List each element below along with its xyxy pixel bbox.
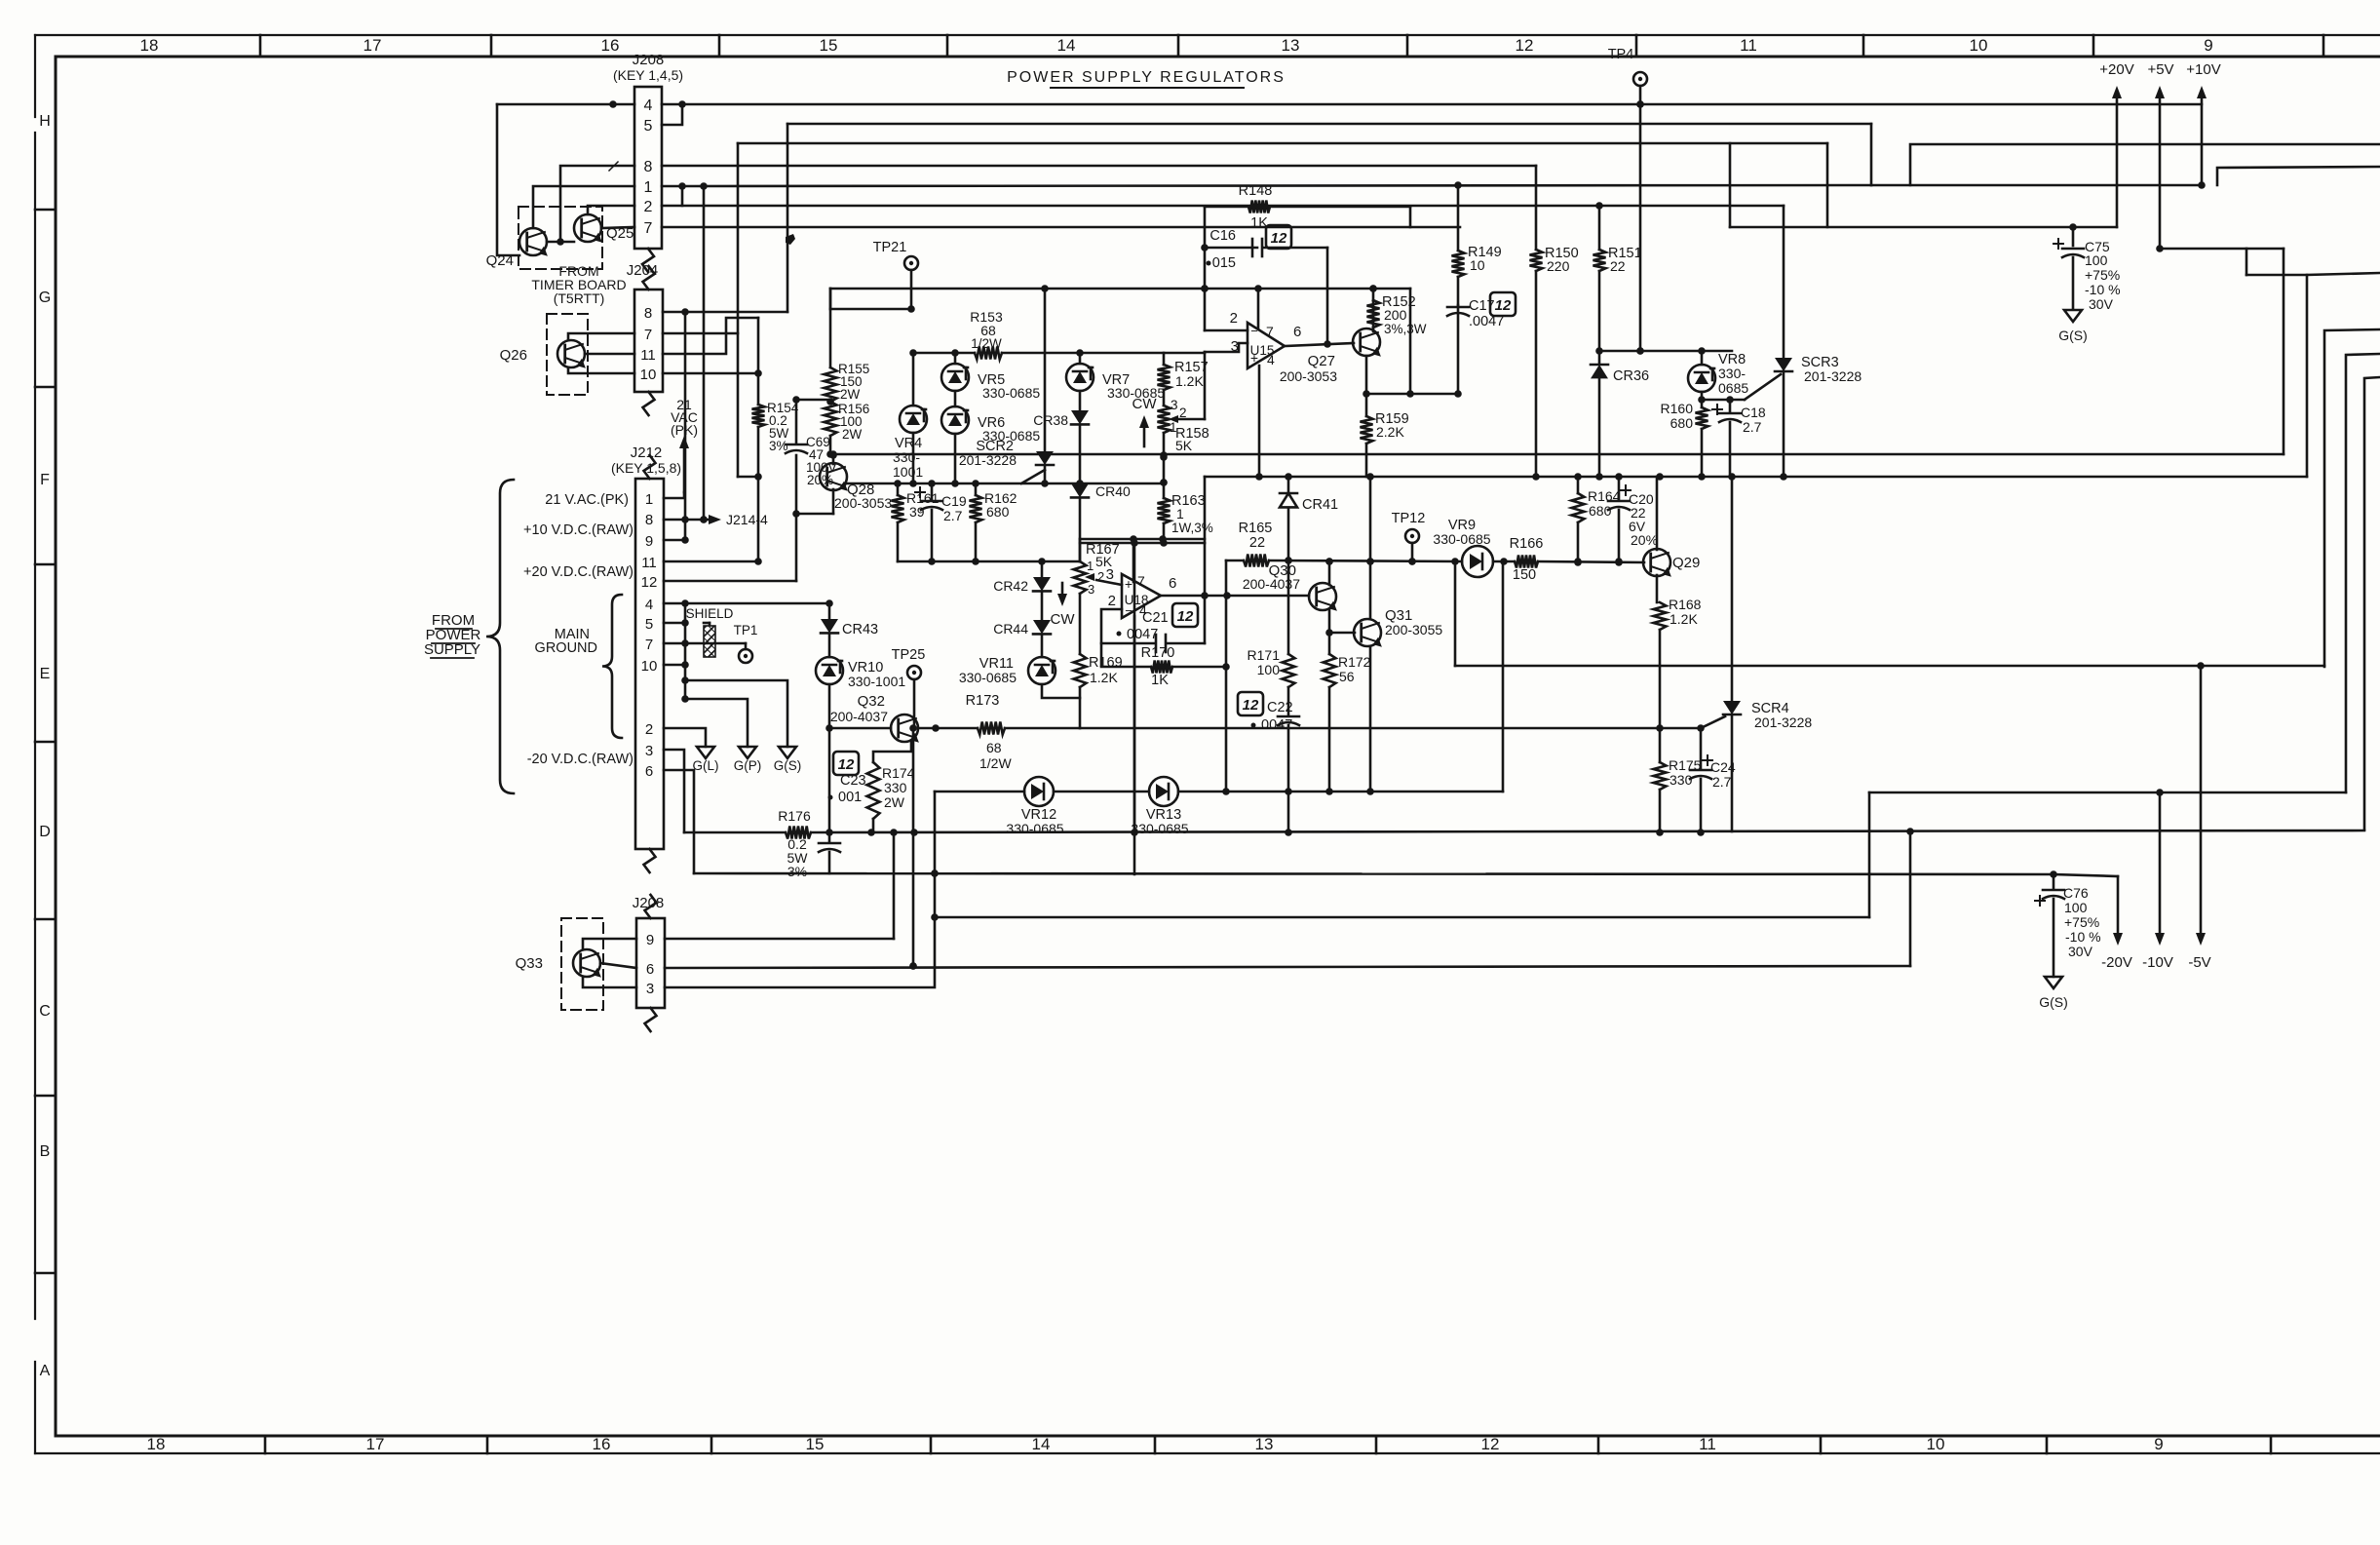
capacitor C69 — [786, 435, 837, 487]
svg-text:1/2W: 1/2W — [979, 755, 1012, 771]
svg-text:22: 22 — [1610, 258, 1626, 274]
wire row619 to CR43 column — [685, 599, 833, 607]
svg-text:TP1: TP1 — [734, 623, 758, 637]
-10V output arrow — [2142, 792, 2173, 971]
svg-text:8: 8 — [645, 512, 653, 528]
wire R167 to R169 — [1079, 594, 1082, 654]
svg-text:18: 18 — [140, 36, 159, 55]
svg-text:14: 14 — [1032, 1435, 1051, 1453]
svg-text:J208: J208 — [633, 52, 665, 68]
test point TP21 — [873, 240, 918, 309]
svg-text:Q29: Q29 — [1672, 555, 1700, 571]
label +10 V.D.C.(RAW) — [523, 522, 633, 538]
svg-text:200-3053: 200-3053 — [1280, 368, 1337, 384]
svg-text:200-3055: 200-3055 — [1385, 622, 1442, 637]
svg-text:56: 56 — [1339, 669, 1355, 684]
svg-text:5: 5 — [645, 616, 653, 633]
wire R165 left leg — [1222, 560, 1230, 792]
capacitor C18 — [1712, 400, 1766, 477]
wire J212 pin11 row — [664, 558, 762, 565]
svg-text:C18: C18 — [1741, 405, 1766, 420]
resistor R162 — [970, 483, 1017, 561]
wire U15 output row349 — [1285, 340, 1354, 348]
wire C69 to pin12 column — [792, 396, 800, 581]
test point TP12 — [1392, 511, 1426, 565]
wire bracket row489 to row282 — [2246, 249, 2380, 477]
wire bracket pins1-2 — [662, 186, 682, 206]
wire row233 (J208 pin7 net) — [662, 226, 1460, 229]
-20V output arrow — [2101, 876, 2132, 971]
svg-text:B: B — [40, 1143, 51, 1160]
svg-text:15: 15 — [820, 36, 838, 55]
svg-text:R168: R168 — [1669, 597, 1702, 612]
wire U18 pin4 to row854 — [1133, 616, 1136, 832]
thyristor SCR3 — [1745, 206, 1862, 477]
svg-text:G: G — [39, 290, 51, 306]
svg-text:G(S): G(S) — [2039, 994, 2068, 1010]
zener VR10 — [816, 634, 905, 689]
wire row169 (J208 pin8 net) — [662, 165, 1536, 168]
svg-text:2: 2 — [644, 199, 653, 215]
wire row107 (J208 pin4 net) — [662, 100, 2202, 108]
svg-text:2: 2 — [1230, 310, 1238, 327]
wire VR9 bypass loop — [1455, 561, 1503, 792]
svg-text:22: 22 — [1249, 535, 1265, 551]
diode CR42 — [993, 561, 1051, 594]
wire bracket row684 to row340 — [2324, 329, 2380, 667]
svg-text:200-4037: 200-4037 — [830, 709, 888, 724]
wire R156 to row466 — [826, 436, 834, 458]
capacitor C76 — [2035, 874, 2101, 977]
svg-text:CW: CW — [1132, 396, 1158, 412]
wire vertical x1236 mid — [1204, 477, 1207, 543]
wire VR4 to row496 — [909, 433, 917, 487]
svg-text:20%: 20% — [1631, 532, 1658, 548]
svg-text:G(S): G(S) — [774, 758, 802, 773]
wire row854 bus — [684, 828, 2364, 836]
wire row190 TP4 net — [682, 185, 1871, 186]
svg-text:220: 220 — [1547, 258, 1570, 274]
resistor R152 — [1367, 289, 1427, 336]
svg-text:11: 11 — [641, 555, 657, 571]
label CW upper — [1132, 396, 1158, 446]
svg-text:11: 11 — [1740, 36, 1757, 55]
wire row147 (+20V net) — [738, 142, 1827, 145]
svg-text:3: 3 — [1088, 582, 1094, 597]
wire U15 pin4 to row489 — [1258, 366, 1261, 477]
diode CR40 — [1071, 483, 1131, 499]
wire step row147 to row233 — [1826, 143, 1829, 227]
svg-text:-10 %: -10 % — [2085, 282, 2121, 297]
svg-text:9: 9 — [646, 932, 654, 948]
svg-text:-5V: -5V — [2188, 954, 2210, 971]
diode CR43 — [821, 603, 878, 637]
title POWER SUPPLY REGULATORS — [1007, 69, 1286, 88]
svg-text:2.7: 2.7 — [943, 508, 963, 523]
svg-text:TP4: TP4 — [1608, 47, 1634, 62]
svg-text:G(P): G(P) — [734, 758, 762, 773]
ground G(S) left — [685, 680, 801, 773]
resistor R176 — [778, 808, 811, 879]
svg-text:3%: 3% — [769, 439, 788, 453]
arrow 21 VAC (PK) — [664, 397, 698, 498]
svg-text:CR40: CR40 — [1095, 483, 1131, 499]
resistor R172 — [1324, 633, 1371, 792]
wire Q32 emitter to R174 — [873, 741, 911, 762]
svg-text:10: 10 — [641, 658, 658, 675]
wire Q29 collector — [1656, 477, 1659, 550]
resistor R149 — [1452, 181, 1502, 277]
shield bar — [686, 606, 734, 657]
svg-text:7: 7 — [644, 220, 653, 237]
wire Q33 pin6 — [600, 963, 636, 968]
wire inverting node x1236 — [1201, 207, 1248, 330]
svg-text:(KEY 1,5,8): (KEY 1,5,8) — [611, 460, 681, 476]
svg-text:−: − — [1250, 324, 1258, 338]
svg-text:30V: 30V — [2068, 944, 2093, 959]
resistor R173 — [918, 693, 1080, 771]
resistor R160 — [1661, 401, 1708, 477]
svg-text:200-3053: 200-3053 — [834, 495, 892, 511]
svg-text:J214-4: J214-4 — [726, 512, 768, 527]
connector J204 — [627, 262, 663, 415]
svg-text:U18: U18 — [1125, 593, 1149, 607]
svg-text:16: 16 — [601, 36, 620, 55]
wire C16 right leg — [1326, 248, 1329, 344]
resistor R161 — [892, 483, 940, 561]
svg-text:CR38: CR38 — [1033, 412, 1068, 428]
svg-text:7: 7 — [1137, 573, 1145, 589]
capacitor C24 — [1690, 728, 1736, 831]
svg-text:3: 3 — [646, 981, 654, 997]
svg-text:(KEY 1,4,5): (KEY 1,4,5) — [613, 67, 683, 83]
dashed box around Q24 Q25 — [518, 207, 602, 269]
diode CR44 — [993, 592, 1051, 637]
svg-text:5K: 5K — [1175, 438, 1193, 453]
wire row496 — [846, 479, 1168, 487]
svg-text:-20 V.D.C.(RAW): -20 V.D.C.(RAW) — [527, 752, 633, 767]
test point TP4 — [1608, 47, 1647, 355]
resistor R157 — [1158, 353, 1209, 390]
svg-text:-10V: -10V — [2142, 954, 2173, 971]
wire step x1918 — [1868, 792, 1871, 917]
svg-text:R170: R170 — [1141, 645, 1175, 661]
transistor Q30 — [1243, 562, 1341, 613]
svg-text:21 V.AC.(PK): 21 V.AC.(PK) — [545, 492, 629, 508]
svg-text:R173: R173 — [966, 693, 1000, 709]
svg-text:17: 17 — [366, 1435, 385, 1453]
svg-text:(T5RTT): (T5RTT) — [554, 290, 605, 306]
label FROM POWER SUPPLY — [424, 612, 481, 658]
svg-text:330-0685: 330-0685 — [1131, 821, 1188, 836]
svg-text:100: 100 — [1257, 662, 1281, 677]
svg-text:7: 7 — [644, 327, 652, 343]
wire row747 left — [829, 727, 891, 730]
svg-text:C24: C24 — [1710, 759, 1736, 775]
wire Q24 top to pin1 — [533, 186, 634, 228]
svg-text:.0047: .0047 — [1469, 314, 1504, 329]
wire J212 pin8 row J214-4 — [664, 512, 768, 527]
wire vertical row147 down — [738, 143, 762, 481]
svg-text:TP21: TP21 — [873, 240, 907, 255]
wire R158 to rows — [1160, 433, 1168, 498]
zener VR8 — [1688, 351, 1748, 396]
svg-text:330-0685: 330-0685 — [1433, 531, 1490, 547]
svg-text:+10 V.D.C.(RAW): +10 V.D.C.(RAW) — [523, 522, 633, 538]
resistor R163 — [1158, 493, 1213, 535]
ground G(S) at C76 — [2039, 977, 2068, 1010]
svg-text:C19: C19 — [941, 493, 967, 509]
svg-text:C21: C21 — [1142, 610, 1169, 626]
svg-text:6: 6 — [1169, 575, 1176, 592]
wire row317 TP21 — [830, 289, 915, 313]
diode CR38 — [1033, 391, 1089, 428]
svg-text:11: 11 — [1699, 1435, 1716, 1453]
transistor Q27 — [1280, 328, 1385, 384]
svg-text:201-3228: 201-3228 — [1754, 715, 1812, 730]
svg-text:330: 330 — [1670, 772, 1693, 788]
svg-text:CR42: CR42 — [993, 578, 1028, 594]
svg-text:2: 2 — [645, 721, 653, 738]
wire J204 pin7 row — [663, 332, 738, 335]
svg-text:R169: R169 — [1089, 655, 1123, 671]
svg-text:200: 200 — [1384, 307, 1407, 323]
svg-text:4: 4 — [644, 97, 653, 114]
wire Q26 top to J204 pin7 — [568, 333, 634, 340]
wire bracket pins4-5 — [662, 104, 682, 125]
svg-text:2W: 2W — [884, 794, 905, 810]
wire Q25 collector to pin7 — [601, 227, 634, 228]
svg-text:30V: 30V — [2089, 296, 2114, 312]
svg-text:+10V: +10V — [2186, 61, 2220, 78]
wire C21 loop — [1101, 543, 1205, 643]
resistor R151 — [1593, 206, 1642, 355]
svg-text:8: 8 — [644, 159, 653, 175]
+5V output arrow — [2147, 61, 2173, 249]
wire R148 right leg — [1409, 207, 1412, 227]
wire row527 C69 to Q28 — [796, 489, 833, 514]
svg-text:U15: U15 — [1250, 343, 1275, 358]
svg-text:1W,3%: 1W,3% — [1171, 521, 1213, 535]
capacitor C21 — [1117, 603, 1199, 652]
svg-text:330: 330 — [884, 780, 907, 795]
svg-text:12: 12 — [1177, 608, 1194, 625]
wire row576 ref — [898, 558, 1080, 565]
wire U18 pin7 from row553 — [1132, 539, 1135, 582]
svg-text:10: 10 — [1470, 257, 1485, 273]
zener VR13 — [1131, 777, 1188, 836]
svg-text:1001: 1001 — [893, 464, 923, 480]
wire Q29 base row — [1538, 559, 1644, 566]
wire VR6 to row496 — [951, 434, 959, 487]
thyristor SCR4 — [1701, 477, 1812, 831]
wire vertical R154 column — [757, 318, 760, 561]
resistor R148 — [1205, 183, 1410, 231]
svg-text:POWER SUPPLY REGULATORS: POWER SUPPLY REGULATORS — [1007, 69, 1286, 86]
svg-text:1: 1 — [645, 491, 653, 508]
wire R163 bottom row557 — [1080, 523, 1205, 547]
test point TP25 — [892, 647, 926, 728]
svg-text:2.7: 2.7 — [1712, 774, 1732, 790]
wire Q29 emitter — [1656, 575, 1659, 602]
svg-text:CR41: CR41 — [1302, 497, 1338, 513]
svg-text:SHIELD: SHIELD — [686, 606, 734, 621]
wire row813 — [1869, 789, 2346, 796]
svg-text:1/2W: 1/2W — [971, 336, 1002, 351]
svg-text:12: 12 — [1516, 36, 1534, 55]
wire vertical x1164 — [1133, 543, 1136, 874]
resistor R169 — [1074, 654, 1123, 728]
connector J208 (bottom) — [633, 895, 665, 1031]
+20V output arrow — [2099, 61, 2133, 227]
wire vertical x722 — [700, 186, 708, 523]
wire Q26 bottom to pin10 — [568, 367, 634, 373]
label CW lower — [1051, 583, 1076, 628]
svg-text:0047: 0047 — [1261, 717, 1292, 733]
transistor Q28 — [820, 463, 892, 511]
-5V output arrow — [2188, 662, 2210, 971]
wire row296 — [830, 285, 1209, 292]
svg-text:2W: 2W — [840, 387, 861, 402]
wire vertical x852 upper — [829, 289, 832, 367]
svg-text:G(S): G(S) — [2058, 328, 2088, 343]
label MAIN GROUND — [535, 627, 597, 656]
zener VR6 — [941, 391, 1040, 444]
resistor R154 — [752, 401, 799, 453]
wire CR38 to CR40 — [1076, 425, 1084, 487]
svg-text:C22: C22 — [1267, 700, 1293, 715]
wire row489 (rail) — [1205, 473, 2307, 481]
svg-text:+: + — [1125, 576, 1132, 592]
svg-text:11: 11 — [640, 347, 656, 364]
svg-text:12: 12 — [1495, 297, 1512, 314]
svg-text:001: 001 — [838, 790, 862, 805]
wire row466 (+5V rail) — [829, 450, 2284, 459]
svg-text:68: 68 — [986, 740, 1002, 755]
wire CR41 column down — [1287, 560, 1290, 654]
svg-text:GROUND: GROUND — [535, 640, 597, 656]
wire bracket row466 to row255 — [2283, 249, 2285, 454]
wire row360 — [1599, 347, 1732, 355]
label 21 V.AC.(PK) — [545, 492, 629, 508]
svg-text:17: 17 — [364, 36, 382, 55]
svg-text:330-1001: 330-1001 — [848, 674, 905, 689]
svg-text:+75%: +75% — [2064, 914, 2099, 930]
resistor R159 — [1361, 411, 1409, 477]
svg-text:R174: R174 — [882, 765, 915, 781]
wire row941 — [935, 916, 1869, 919]
brace MAIN GROUND pins — [602, 595, 622, 738]
svg-text:200-4037: 200-4037 — [1243, 576, 1300, 592]
svg-text:2W: 2W — [842, 427, 863, 442]
wire Q28 emitter to row496 — [844, 483, 846, 485]
wire bracket row813 to row365 — [2346, 354, 2380, 792]
svg-text:330-0685: 330-0685 — [982, 385, 1040, 401]
svg-text:10: 10 — [1927, 1435, 1945, 1453]
svg-text:015: 015 — [1212, 255, 1236, 271]
wire Q24-Q25 emitters — [547, 166, 634, 246]
wire row190 right segment — [1871, 181, 2206, 189]
wire Q27 emitter node — [1363, 289, 1462, 398]
svg-text:7: 7 — [1266, 324, 1274, 339]
svg-text:1.2K: 1.2K — [1090, 670, 1118, 685]
wire row148 right exit — [1910, 144, 2380, 185]
label C16 — [1207, 225, 1292, 271]
svg-text:9: 9 — [645, 533, 653, 550]
resistor R150 — [1530, 246, 1579, 477]
wire Q27 emitter to R159 — [1365, 394, 1368, 416]
svg-text:3: 3 — [1171, 398, 1178, 412]
svg-text:1K: 1K — [1250, 215, 1268, 231]
svg-text:Q26: Q26 — [500, 347, 527, 364]
wire row896 right end — [2050, 870, 2118, 878]
svg-text:14: 14 — [1057, 36, 1076, 55]
wire row362 — [909, 349, 1205, 357]
svg-text:Q33: Q33 — [516, 955, 543, 972]
svg-text:0685: 0685 — [1718, 380, 1748, 396]
zener VR5 — [941, 353, 1040, 401]
svg-text:10: 10 — [640, 367, 657, 383]
svg-text:CW: CW — [1051, 611, 1076, 628]
svg-text:1K: 1K — [1151, 673, 1169, 688]
transistor Q26 — [500, 340, 590, 370]
svg-text:9: 9 — [2154, 1435, 2163, 1453]
svg-text:2.7: 2.7 — [1743, 419, 1762, 435]
wire R170 row — [1101, 643, 1226, 667]
wire J204 pin10 row — [663, 369, 762, 377]
ground G(S) at C75 — [2058, 310, 2088, 343]
test point TP1 — [685, 623, 757, 663]
svg-text:-10 %: -10 % — [2065, 929, 2101, 945]
svg-text:+5V: +5V — [2147, 61, 2173, 78]
capacitor C22 — [1238, 692, 1299, 832]
wire row812 VR12 VR13 — [935, 788, 1503, 795]
svg-text:R166: R166 — [1510, 536, 1544, 552]
connector J208 (top) — [613, 52, 683, 272]
svg-text:4: 4 — [645, 597, 653, 613]
svg-text:Q27: Q27 — [1308, 353, 1335, 369]
svg-text:CR44: CR44 — [993, 621, 1028, 637]
svg-text:1: 1 — [644, 179, 653, 196]
svg-text:A: A — [40, 1363, 51, 1379]
capacitor C20 — [1608, 477, 1658, 565]
transistor Q24 — [486, 228, 552, 269]
svg-text:680: 680 — [1670, 415, 1694, 431]
svg-text:7: 7 — [645, 637, 653, 653]
wire VR10 to row747 — [825, 684, 833, 832]
svg-text:2: 2 — [1108, 593, 1116, 609]
wire CR40 to row576 — [1079, 498, 1082, 561]
zener VR12 — [1006, 777, 1063, 836]
wire VR8 to R160 — [1698, 392, 1745, 407]
zener VR9 — [1433, 518, 1493, 577]
wire Q31 collector — [1366, 477, 1374, 618]
resistor R175 — [1654, 728, 1702, 831]
wire row169 to R150 — [1535, 166, 1538, 250]
svg-text:E: E — [40, 666, 51, 682]
bottom border column numbers — [147, 1435, 2271, 1453]
transistor Q25 — [574, 214, 633, 245]
wire Q30 emitter to Q31 — [1325, 610, 1355, 637]
svg-text:CR43: CR43 — [842, 622, 878, 637]
svg-text:13: 13 — [1255, 1435, 1274, 1453]
resistor R170 — [1141, 645, 1175, 688]
svg-text:12: 12 — [1271, 230, 1287, 247]
transistor Q33 — [516, 949, 605, 980]
svg-text:G(L): G(L) — [693, 758, 719, 773]
svg-text:J212: J212 — [631, 444, 663, 461]
wire x917 column — [893, 832, 896, 939]
